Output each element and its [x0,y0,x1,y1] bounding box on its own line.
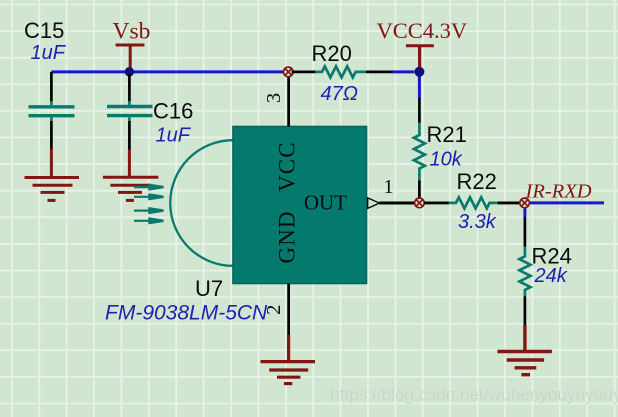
svg-text:https://blog.csdn.net/wuhenyou: https://blog.csdn.net/wuhenyouyuyouyu [330,384,618,404]
pin 3 wire [287,77,290,127]
svg-text:1uF: 1uF [156,124,192,146]
connection marker (pin 3) [284,67,294,77]
resistor R22 [424,201,449,204]
capacitor C16 [107,74,153,150]
svg-text:GND: GND [275,210,300,263]
wire IR-RXD right [529,201,604,204]
ground (pin 2) [261,335,316,384]
svg-text:1: 1 [383,176,393,198]
svg-text:C15: C15 [24,18,64,43]
svg-text:24k: 24k [534,265,568,287]
svg-text:Vsb: Vsb [113,18,151,44]
svg-text:R21: R21 [427,122,467,147]
svg-text:47Ω: 47Ω [321,83,358,105]
wire blue below VCC junction [418,74,421,99]
svg-text:10k: 10k [430,148,463,170]
svg-text:3.3k: 3.3k [458,211,497,233]
wire blue below IR-RXD junction [523,207,526,217]
IC body U7 [233,127,367,284]
output buffer triangle (pin 1) [368,198,380,209]
capacitor C15 [29,72,75,149]
svg-text:1uF: 1uF [31,42,67,64]
svg-text:VCC: VCC [275,141,300,192]
receiver arc [170,140,233,266]
power Vsb [113,18,151,68]
svg-text:R20: R20 [312,41,352,66]
svg-text:FM-9038LM-5CN: FM-9038LM-5CN [105,301,268,324]
resistor R20 [292,71,316,74]
resistor R21 [418,98,421,123]
svg-text:3: 3 [263,93,285,103]
junction dot (VCC) [414,67,424,77]
wire main horizontal blue [51,70,284,73]
ground (C15) [25,149,80,201]
power VCC4.3V [377,18,468,68]
svg-text:R22: R22 [457,169,497,194]
resistor R24 [524,218,527,248]
connection marker (pin 1 / R22) [415,198,425,208]
pin 2 wire [287,284,290,337]
svg-text:IR-RXD: IR-RXD [525,180,592,202]
svg-text:U7: U7 [195,276,223,301]
svg-text:OUT: OUT [304,190,347,214]
junction dot (Vsb) [125,67,134,76]
IR light arrows [134,185,164,223]
connection marker (IR-RXD) [520,198,530,208]
ground (R24) [497,325,552,375]
wire blue right of R20 [393,70,415,73]
pin 1 wire [380,202,415,205]
svg-text:VCC4.3V: VCC4.3V [377,18,468,43]
ground (C16) [103,149,158,200]
svg-text:C16: C16 [153,99,193,124]
